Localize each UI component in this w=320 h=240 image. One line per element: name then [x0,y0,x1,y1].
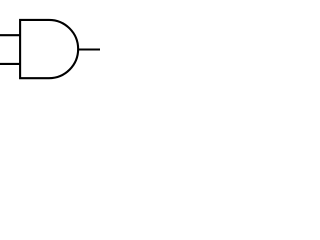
wire input B [0,63,20,65]
wire input A [0,34,20,36]
AND gate U1 body [20,20,78,78]
wire output [78,48,100,50]
